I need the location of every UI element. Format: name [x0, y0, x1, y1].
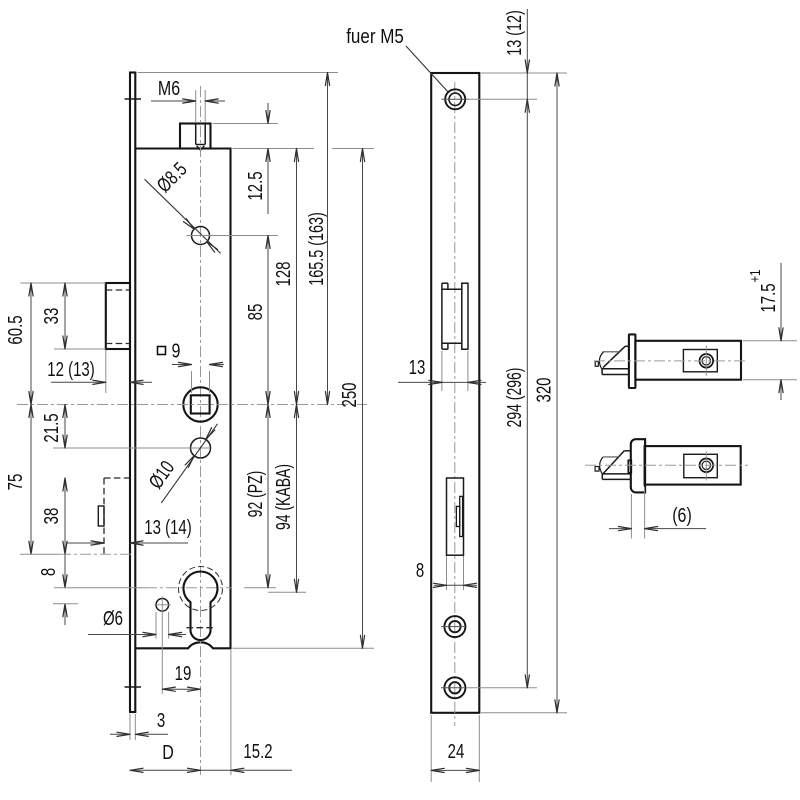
latch bottom strip	[602, 369, 629, 375]
extension plate top	[481, 72, 567, 74]
extension line case bottom	[233, 647, 375, 649]
svg-text:320: 320	[532, 377, 555, 402]
svg-text:294 (296): 294 (296)	[502, 368, 525, 428]
hole D8.5	[192, 227, 210, 245]
dim 250	[338, 149, 365, 649]
svg-text:13: 13	[409, 356, 426, 379]
case vertical centerline	[200, 86, 202, 775]
latch pocket screw	[700, 354, 714, 368]
svg-text:165.5 (163): 165.5 (163)	[305, 212, 328, 286]
svg-text:fuer M5: fuer M5	[346, 25, 404, 48]
bottom screw hole 1	[441, 616, 465, 637]
hole D10	[191, 438, 211, 458]
faceplate (left view)	[129, 73, 136, 713]
svg-text:D: D	[162, 741, 174, 763]
break tick top	[125, 98, 142, 100]
svg-text:94 (KABA): 94 (KABA)	[271, 464, 294, 530]
extension line stud top	[213, 123, 279, 125]
extension stub KABA level (94)	[268, 591, 306, 593]
svg-text:15.2: 15.2	[243, 740, 272, 763]
dim 12.5	[244, 103, 270, 214]
dim 165.5 (163)	[305, 73, 330, 405]
dim 38	[40, 478, 67, 554]
deadbolt stump bars	[456, 496, 462, 536]
top screw hole (fuer M5)	[442, 89, 470, 109]
hole D6	[156, 599, 169, 612]
deadbolt centerline	[585, 464, 748, 466]
deadbolt stump rect	[628, 460, 631, 473]
svg-text:13 (14): 13 (14)	[144, 516, 191, 539]
latch bolt side view	[594, 334, 746, 388]
dim 17.5 +1	[743, 263, 797, 400]
dim 92 (PZ)	[243, 405, 270, 588]
extension stub cylinder center (92)	[244, 587, 276, 589]
svg-text:17.5: 17.5	[757, 283, 780, 312]
latch faceplate section	[629, 334, 636, 388]
dim D6	[88, 607, 186, 639]
svg-text:9: 9	[172, 340, 181, 362]
latch bevel	[603, 346, 629, 367]
svg-text:38: 38	[40, 508, 63, 525]
faceplate front outline	[431, 73, 479, 713]
faceplate vertical centerline	[454, 82, 456, 726]
deadbolt collar	[631, 439, 645, 492]
block hidden edge bottom	[106, 343, 130, 345]
latch tip tick	[595, 362, 598, 367]
extension plate bottom	[481, 712, 567, 714]
bottom screw hole 2	[441, 677, 465, 698]
latch pocket screw axis	[705, 346, 707, 376]
deadbolt side view	[585, 439, 748, 492]
extension line D8.5 center	[187, 235, 279, 237]
deadbolt bevel	[603, 451, 631, 474]
dim M6	[151, 77, 225, 122]
dim 21.5	[40, 405, 67, 449]
svg-text:Ø6: Ø6	[103, 607, 123, 630]
dim 94 (KABA)	[271, 405, 298, 593]
svg-text:75: 75	[4, 474, 27, 491]
square follower	[183, 387, 217, 421]
svg-text:92 (PZ): 92 (PZ)	[243, 471, 266, 518]
deadbolt tip tick	[595, 467, 599, 472]
hidden slot (dashed)	[104, 478, 130, 554]
dim 60.5	[4, 283, 33, 405]
deadbolt pocket	[684, 454, 718, 477]
break tick bottom	[125, 686, 142, 688]
svg-text:12 (13): 12 (13)	[47, 358, 94, 381]
cylinder horizontal centerline	[54, 587, 232, 589]
dim 320	[532, 73, 559, 713]
svg-text:13 (12): 13 (12)	[503, 10, 526, 56]
cylinder clearance circle (dashed)	[179, 567, 223, 611]
dash-dot line at slot bottom	[20, 553, 131, 555]
D10 center extension	[53, 447, 211, 449]
svg-text:21.5: 21.5	[40, 413, 63, 442]
extension line case top	[233, 148, 375, 150]
dim 19	[155, 597, 201, 695]
svg-text:12.5: 12.5	[244, 171, 267, 200]
svg-text:250: 250	[338, 382, 361, 407]
block hidden edge top	[106, 289, 130, 291]
svg-text:8: 8	[416, 559, 424, 582]
svg-text:+1: +1	[746, 270, 763, 283]
dim 33	[21, 283, 106, 349]
dim 128	[272, 149, 299, 405]
dim 24	[431, 715, 479, 782]
svg-text:19: 19	[175, 662, 192, 685]
dim 85	[244, 236, 270, 405]
svg-text:8: 8	[37, 568, 60, 576]
dim 13 (12) and 294 (296) chain	[502, 9, 529, 688]
hidden line across cylinder foot	[187, 627, 215, 629]
deadbolt window	[447, 478, 464, 555]
dim 13 (latch window)	[398, 351, 486, 391]
extension top screw center	[467, 98, 537, 100]
dim 75	[4, 405, 33, 555]
label fuer M5 with leader	[346, 25, 448, 93]
latch body	[635, 341, 741, 380]
svg-text:(6): (6)	[672, 504, 692, 526]
latch pocket	[683, 350, 717, 372]
deadbolt tip arc	[600, 457, 603, 474]
svg-text:3: 3	[157, 709, 165, 732]
dim D (backset) and 15.2	[130, 650, 292, 775]
deadbolt bottom strip	[602, 474, 630, 480]
side block on faceplate	[106, 283, 130, 349]
svg-text:33: 33	[40, 308, 63, 325]
lock case outline with bottom notch	[135, 149, 230, 649]
dim 12 (13)	[47, 350, 152, 393]
dim 13 (14)	[66, 516, 192, 545]
dim 8 (deadbolt window)	[416, 556, 477, 590]
leader D10	[161, 424, 217, 503]
dim 3 (faceplate thickness)	[110, 709, 168, 740]
leader D8.5	[145, 179, 221, 253]
follower horizontal centerline	[17, 404, 367, 406]
dim (6)	[609, 487, 706, 539]
latch nose top thin line	[603, 351, 620, 353]
dim square 9	[158, 340, 225, 393]
deadbolt pocket screw	[700, 459, 714, 473]
top stud	[180, 124, 211, 149]
extension line faceplate top	[138, 72, 339, 74]
extension bottom screw center	[466, 687, 537, 689]
deadbolt body	[645, 446, 741, 485]
deadbolt pocket screw axis	[705, 452, 707, 481]
svg-text:24: 24	[448, 740, 465, 763]
latch centerline	[594, 360, 746, 362]
svg-text:128: 128	[272, 261, 295, 286]
svg-text:60.5: 60.5	[4, 315, 27, 344]
svg-text:M6: M6	[158, 77, 180, 99]
svg-text:85: 85	[244, 304, 267, 321]
deadbolt nose top line	[603, 456, 619, 458]
M6 threaded hole	[196, 124, 206, 151]
latch window	[442, 283, 468, 349]
small slot tab	[98, 506, 104, 526]
PZ cylinder hole profile	[184, 572, 218, 640]
dim 8 (left view)	[37, 554, 78, 625]
latch tip arc	[599, 352, 603, 370]
